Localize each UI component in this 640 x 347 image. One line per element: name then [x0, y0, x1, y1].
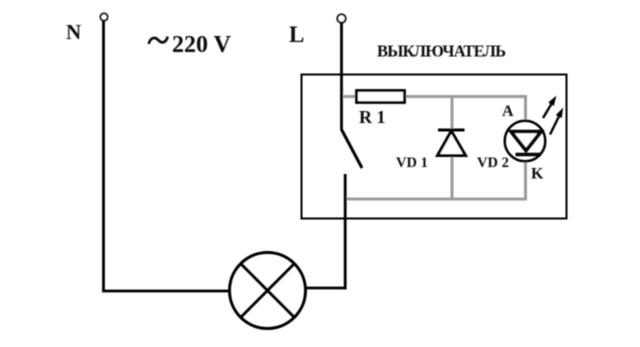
svg-text:220 V: 220 V [172, 32, 232, 58]
svg-text:N: N [66, 20, 81, 44]
svg-text:VD 2: VD 2 [477, 155, 509, 171]
svg-text:R 1: R 1 [359, 107, 386, 127]
svg-text:L: L [289, 22, 304, 47]
svg-text:A: A [502, 103, 514, 120]
svg-text:ВЫКЛЮЧАТЕЛЬ: ВЫКЛЮЧАТЕЛЬ [377, 42, 506, 61]
svg-text:VD 1: VD 1 [396, 155, 428, 171]
svg-text:K: K [531, 166, 544, 183]
